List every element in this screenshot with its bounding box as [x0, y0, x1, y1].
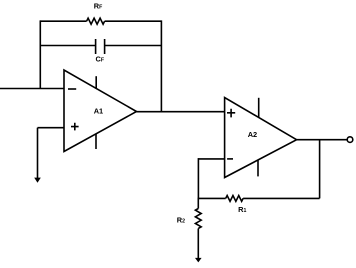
node output terminal: [347, 137, 353, 143]
minus sign A2: [227, 158, 233, 160]
wire R2 top stem: [197, 198, 199, 209]
wire feedback up to output: [319, 140, 321, 199]
op-amp A2: [225, 98, 297, 178]
pin V- tick A2 bottom: [257, 160, 259, 176]
resistor Rf: [87, 18, 105, 24]
wire top-left segment of Rf loop: [40, 20, 86, 22]
wire non-inverting input A1: [38, 127, 65, 129]
wire inverting input A2: [198, 158, 224, 160]
svg-text:R2: R2: [177, 216, 185, 225]
wire ground stem left: [37, 128, 39, 179]
wire R1 right: [243, 197, 320, 199]
svg-text:R1: R1: [238, 205, 246, 214]
op-amp A1: [64, 70, 137, 152]
ground arrow left: [34, 178, 41, 183]
wire inverting input A1: [0, 88, 64, 90]
wire R1 left: [198, 197, 225, 199]
minus sign A1: [68, 88, 76, 90]
wire A2 output: [297, 139, 348, 141]
resistor R1: [226, 196, 243, 202]
svg-text:CF: CF: [96, 55, 105, 64]
wire Cf right: [105, 45, 162, 47]
pin V- tick A1 bottom: [95, 134, 97, 149]
capacitor Cf: [96, 39, 105, 54]
wire Cf left: [40, 45, 95, 47]
pin V+ tick A1 top: [95, 76, 97, 89]
svg-text:RF: RF: [94, 1, 103, 10]
wire A1 output to A2 input: [137, 111, 225, 113]
ground arrow right: [195, 258, 202, 263]
svg-text:A2: A2: [248, 130, 257, 139]
wire left rail: [39, 20, 41, 88]
svg-text:A1: A1: [94, 107, 103, 116]
plus sign A2: [227, 109, 235, 118]
plus sign A1: [71, 123, 79, 131]
pin V+ tick A2 top: [258, 98, 260, 117]
wire feedback rail down: [197, 158, 199, 198]
wire R2 bottom stem to ground: [197, 229, 199, 259]
resistor R2: [195, 209, 201, 229]
wire top-right segment of Rf loop: [105, 20, 162, 22]
wire right rail: [160, 20, 162, 111]
